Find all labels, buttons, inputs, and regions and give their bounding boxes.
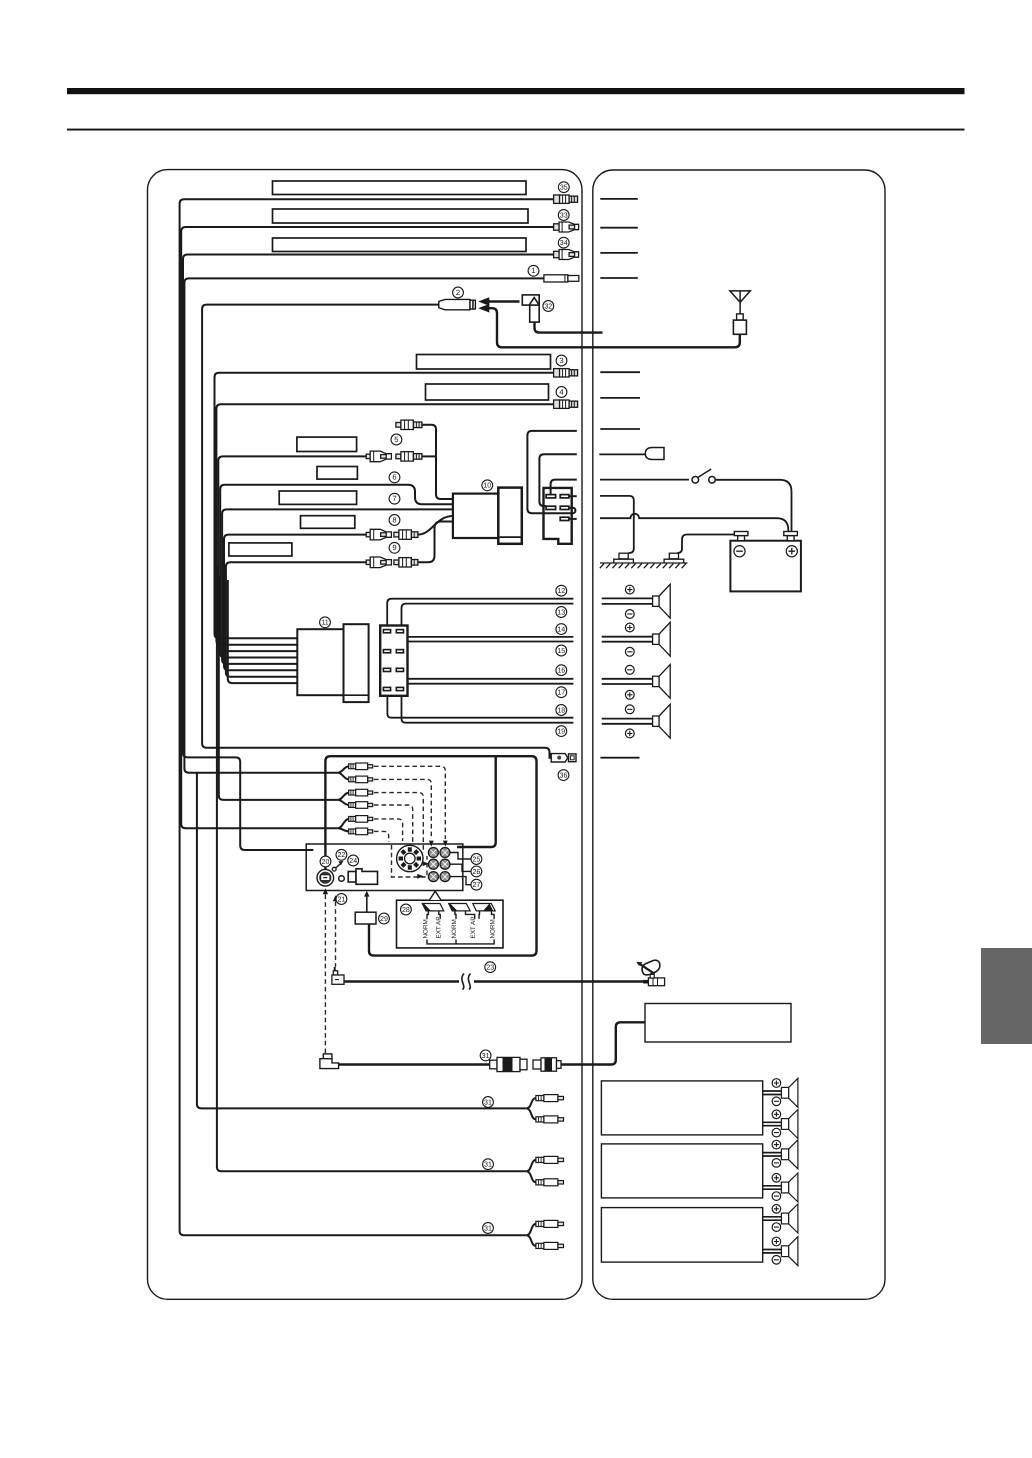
amplifier box 1 <box>601 1081 762 1135</box>
svg-text:34: 34 <box>560 239 568 247</box>
RCA plug L3 <box>349 816 373 823</box>
lead 19 <box>402 691 574 723</box>
amp2 speaker A <box>781 1140 798 1169</box>
RCA cord 31 pair 3 plugs <box>536 1220 564 1227</box>
amp3 speaker B <box>781 1237 798 1266</box>
amp1 speaker B minus <box>772 1128 781 1137</box>
svg-text:NORM: NORM <box>422 919 429 938</box>
lead 36 connector <box>551 754 576 762</box>
RCA plug L2 <box>349 789 373 796</box>
amp2 speaker B plus <box>772 1174 781 1183</box>
speaker FL plus <box>625 585 634 594</box>
connector 24 <box>348 869 377 885</box>
node 32 <box>543 301 554 312</box>
speaker FR minus <box>625 647 634 656</box>
label box 3 <box>417 355 551 370</box>
vehicle ISO socket <box>380 626 407 696</box>
amp2 speaker A plus <box>772 1140 781 1149</box>
wire 31b cord <box>217 566 526 1171</box>
amplifier box 2 <box>601 1144 762 1198</box>
spade female 5 <box>366 451 391 462</box>
wire 6 branch to fuse box <box>408 485 453 505</box>
label box 33 <box>273 209 529 223</box>
node 25 <box>471 854 482 865</box>
svg-text:22: 22 <box>337 851 345 859</box>
node 23 <box>485 962 496 973</box>
RCA jack grid <box>428 848 450 882</box>
amp2 speaker B minus <box>772 1192 781 1201</box>
wire 9 jumper to fuse box <box>418 522 453 563</box>
label box 7 <box>279 491 356 504</box>
node 8 <box>389 515 400 526</box>
svg-text:21: 21 <box>337 895 345 903</box>
cord break mark <box>460 973 474 990</box>
svg-text:3: 3 <box>559 356 563 365</box>
title bar <box>67 88 965 94</box>
dashed lead R2 <box>374 805 413 845</box>
label box 6 <box>317 467 357 480</box>
wire 31a cord <box>197 773 526 1109</box>
amp2 speaker B wires <box>763 1186 782 1189</box>
box 28 <box>397 900 504 948</box>
antenna extension cable <box>489 308 740 347</box>
selector symbol 3 <box>473 904 495 911</box>
speaker FL wires <box>602 598 653 604</box>
svg-text:33: 33 <box>560 211 568 219</box>
selector bottom bracket <box>427 940 494 944</box>
arrow 29 to unit <box>366 896 368 913</box>
rule line <box>67 129 965 131</box>
amp3 speaker A <box>781 1204 798 1233</box>
amp2 speaker B <box>781 1173 798 1202</box>
svg-text:16: 16 <box>557 667 565 675</box>
antenna extension cord 31 <box>339 1063 490 1065</box>
ISO plug 11 left <box>297 629 343 695</box>
arrow into jack col2 <box>443 841 448 847</box>
arrow at jack row2 <box>423 861 429 866</box>
node 3 <box>556 355 567 366</box>
page tab marker <box>981 948 1032 1044</box>
lead 18 <box>387 691 573 718</box>
amp1 speaker A <box>781 1078 798 1107</box>
node 29 <box>379 913 390 924</box>
amp1 speaker A wires <box>763 1091 782 1095</box>
power connector terminals <box>546 495 569 521</box>
node 28 <box>401 904 412 915</box>
lead 15 <box>402 642 574 650</box>
wire 3 to ISO pin <box>215 373 554 639</box>
node 7 <box>389 493 400 504</box>
RCA cord 31 pair 2 plugs <box>536 1156 564 1163</box>
amp3 speaker A plus <box>772 1205 781 1214</box>
amp1 speaker A minus <box>772 1097 781 1106</box>
RCA fork 1 <box>338 766 349 779</box>
battery negative wire <box>677 535 734 554</box>
svg-text:8: 8 <box>392 515 396 524</box>
car-side power connector body <box>544 488 572 544</box>
node 12 <box>556 585 567 596</box>
spade female 8 <box>366 529 391 540</box>
connector 34 <box>554 250 579 260</box>
switch lever <box>698 469 711 477</box>
node 9 <box>389 542 400 553</box>
node 27 <box>471 879 482 890</box>
box 29 <box>355 912 376 924</box>
node 16 <box>556 665 567 676</box>
node 2 <box>453 287 464 298</box>
selector legs 1 <box>427 911 440 919</box>
DIN cord branch into switch unit <box>457 756 496 847</box>
svg-text:27: 27 <box>472 881 480 889</box>
amp3 speaker B minus <box>772 1256 781 1265</box>
svg-text:14: 14 <box>557 626 565 634</box>
switch contacts <box>692 477 699 484</box>
node 18 <box>556 705 567 716</box>
microphone <box>636 960 664 985</box>
wire 1 / RCA cord 1 <box>184 278 544 772</box>
amp1 speaker B <box>781 1110 798 1139</box>
node 17 <box>556 687 567 698</box>
switch unit box <box>306 844 463 891</box>
svg-text:2: 2 <box>456 288 460 297</box>
ISO plug 11 right <box>344 624 369 702</box>
amp3 speaker A wires <box>763 1217 782 1220</box>
caret pointer <box>430 891 441 900</box>
dashed lead L3 <box>374 819 403 841</box>
svg-text:17: 17 <box>557 689 565 697</box>
arrow to jack 2 upper <box>488 300 519 303</box>
rotary selector wheel <box>397 845 423 871</box>
lead 17 <box>402 672 574 684</box>
ignition key <box>645 448 664 460</box>
jumper 5 lower tail <box>422 455 436 457</box>
svg-text:9: 9 <box>392 543 396 552</box>
svg-text:15: 15 <box>557 647 565 655</box>
wire 6 to ISO pin <box>220 485 408 658</box>
svg-text:13: 13 <box>557 608 565 616</box>
cord 23 continued <box>474 980 644 982</box>
battery <box>730 541 801 592</box>
accessory wire with jump <box>600 514 788 532</box>
amplifier box 3 <box>601 1208 762 1263</box>
svg-text:31: 31 <box>482 1052 490 1060</box>
dashed lead L2 <box>374 793 423 853</box>
fuse box 10 lip <box>500 536 522 538</box>
connector 4 <box>554 400 578 408</box>
speaker RL wires <box>602 679 653 684</box>
wire 8th ISO pin <box>228 580 297 683</box>
label box 34 <box>273 238 527 252</box>
ground lug 1 <box>614 553 634 563</box>
speaker FL minus <box>625 610 634 619</box>
vehicle panel <box>593 170 885 1299</box>
wire 35 / RCA cord 31c main <box>180 199 554 1235</box>
label box 8 <box>301 516 355 529</box>
battery plus symbol <box>786 546 797 557</box>
key lever 22 <box>332 861 343 871</box>
node 36 <box>558 770 569 781</box>
selector symbol 2 <box>449 904 471 911</box>
label box 4 <box>426 384 549 400</box>
cord 31 to changer <box>561 1022 645 1064</box>
dashed selector outline <box>392 845 428 877</box>
connector 3 <box>554 369 578 377</box>
node 31 <box>483 1159 494 1170</box>
node 19 <box>556 726 567 737</box>
node 10 <box>482 480 493 491</box>
svg-text:4: 4 <box>559 387 563 396</box>
wire 5 to ISO pin <box>218 456 366 651</box>
speaker RR <box>653 704 671 738</box>
speaker RL <box>653 665 671 699</box>
label box 9 <box>229 543 292 556</box>
ground lug 2 <box>664 553 684 563</box>
connector 33 <box>554 222 579 232</box>
svg-text:11: 11 <box>321 619 328 627</box>
RCA plug R1 <box>349 776 373 783</box>
amp1 speaker B plus <box>772 1110 781 1119</box>
svg-text:19: 19 <box>557 728 565 736</box>
lead 12 <box>387 599 573 626</box>
node 15 <box>556 645 567 656</box>
arrow into jack col1 <box>429 841 434 847</box>
wire loop C to car connector <box>551 480 577 496</box>
label box 35 <box>273 181 527 195</box>
node 4 <box>556 387 567 398</box>
dashed lead from jack 21 <box>335 902 337 967</box>
connector 35 <box>554 195 578 203</box>
extension cord 23 <box>344 980 459 982</box>
node 22 <box>336 849 347 860</box>
key stub wire <box>599 453 645 455</box>
node 14 <box>556 624 567 635</box>
fuse box 10 left <box>453 494 500 538</box>
dashed lead from DIN 20 <box>324 895 326 1054</box>
RCA fork 31 pair2 <box>526 1160 536 1182</box>
node 13 <box>556 607 567 618</box>
arrow up to jack 21 <box>333 895 338 901</box>
svg-text:32: 32 <box>544 302 552 310</box>
spade male 8 <box>394 530 418 539</box>
selector legs 3 <box>479 911 494 919</box>
lead 14 <box>387 637 573 650</box>
head unit panel <box>148 170 583 1300</box>
node 20 <box>320 856 331 867</box>
dashed lead R1 <box>374 779 431 839</box>
wire 2 antenna jack cord / lead 36 <box>202 305 552 758</box>
arrow to jack 2 lower <box>478 304 489 313</box>
svg-text:12: 12 <box>557 587 565 595</box>
speaker RL plus <box>625 690 634 699</box>
node 31 <box>483 1223 494 1234</box>
svg-text:NORM: NORM <box>451 919 458 938</box>
plug adapter 32 <box>522 295 539 322</box>
wire loop B to car connector <box>539 454 576 506</box>
bracket to node 27 <box>450 877 470 885</box>
svg-text:20: 20 <box>322 858 330 866</box>
amp3 speaker B wires <box>763 1250 782 1253</box>
ground hatching <box>600 563 688 568</box>
node 31 <box>480 1050 491 1061</box>
RCA plug R3 <box>349 828 373 835</box>
RCA fork 3 <box>338 819 349 832</box>
svg-text:6: 6 <box>392 473 396 482</box>
wire 33 / RCA cord 3 <box>181 227 553 828</box>
wire loop A to car connector <box>527 431 576 513</box>
svg-text:31: 31 <box>484 1224 492 1232</box>
spade male 5 lower <box>396 452 422 461</box>
amp2 speaker A wires <box>763 1153 782 1156</box>
svg-text:EXT AP: EXT AP <box>435 917 442 939</box>
RCA cord 2 <box>219 576 338 800</box>
ISO plug 11 lip <box>345 694 369 696</box>
svg-text:29: 29 <box>380 915 388 923</box>
amp3 speaker B plus <box>772 1237 781 1246</box>
spade female 9 <box>366 557 391 568</box>
svg-text:31: 31 <box>484 1098 492 1106</box>
amp3 speaker A minus <box>772 1223 781 1232</box>
ground wire 1 <box>600 496 634 553</box>
wire 8 jumper to fuse box <box>418 516 453 535</box>
battery minus symbol <box>734 546 745 557</box>
svg-text:NORM: NORM <box>489 919 496 938</box>
connector 1 barrel <box>544 275 579 282</box>
plug 23 mini jack <box>332 967 344 984</box>
stub lines upper <box>600 199 638 278</box>
speaker FR plus <box>625 623 634 632</box>
arrow up to DIN 20 <box>323 888 328 894</box>
amp1 speaker B wires <box>763 1122 782 1125</box>
RCA plug R2 <box>349 802 373 809</box>
RCA fork 2 <box>338 793 349 805</box>
selector symbol 1 <box>422 904 443 911</box>
vehicle ISO terminals <box>383 630 403 691</box>
stub lines mid <box>600 372 640 429</box>
node 24 <box>348 855 359 866</box>
switch wire left <box>600 479 689 481</box>
label box 5 <box>297 437 357 451</box>
svg-text:7: 7 <box>392 494 396 503</box>
node 34 <box>558 237 569 248</box>
amp1 speaker A plus <box>772 1079 781 1088</box>
lead 13 <box>402 604 574 626</box>
pin jack 21 <box>339 876 345 882</box>
arrow at jack row3 <box>417 874 423 879</box>
speaker FL <box>653 584 671 618</box>
speaker FR wires <box>602 637 653 642</box>
svg-text:EXT AP: EXT AP <box>470 917 477 939</box>
inline antenna connectors 31 <box>490 1057 561 1071</box>
CD changer box <box>645 1004 791 1043</box>
wire 7 through fuse box <box>222 509 453 664</box>
fuse box 10 right <box>498 488 522 544</box>
car connector stub lower <box>569 518 577 520</box>
node 33 <box>558 210 569 221</box>
node 35 <box>558 182 569 193</box>
selector legs 2 <box>455 911 475 919</box>
RCA fork 31 pair1 <box>526 1098 536 1119</box>
spade male 5 upper <box>396 420 422 429</box>
antenna mast <box>730 291 750 334</box>
svg-text:23: 23 <box>486 964 494 972</box>
speaker RR wires <box>602 719 653 724</box>
node 26 <box>471 866 482 877</box>
svg-text:10: 10 <box>483 482 491 490</box>
RCA cord 31 pair 1 plugs <box>536 1095 564 1102</box>
speaker RL minus <box>625 665 634 674</box>
RCA fork 31 pair3 <box>526 1224 536 1246</box>
svg-text:31: 31 <box>484 1161 492 1169</box>
wire 4 to ISO pin <box>216 404 553 645</box>
antenna jack 2 <box>439 299 476 309</box>
node 31 <box>483 1097 494 1108</box>
node 21 <box>336 894 347 905</box>
wire 9 to ISO pin <box>226 562 366 676</box>
dashed lead L1 <box>374 766 445 839</box>
battery positive post <box>784 532 798 541</box>
svg-text:25: 25 <box>472 855 480 863</box>
svg-text:36: 36 <box>560 772 568 780</box>
speaker RR plus <box>625 729 634 738</box>
battery negative post <box>734 532 748 541</box>
switch wire to battery <box>715 480 791 532</box>
RCA plug L1 <box>349 763 373 770</box>
bracket to node 26 <box>450 864 470 871</box>
speaker RR minus <box>625 705 634 714</box>
spade male 9 <box>394 558 418 567</box>
lead 16 <box>387 672 573 679</box>
node 1 <box>528 265 539 276</box>
wire 34 / feed to DIN <box>183 255 554 851</box>
svg-text:28: 28 <box>402 906 410 914</box>
svg-text:18: 18 <box>557 706 565 714</box>
plug 32 tail <box>535 322 603 333</box>
speaker FR <box>653 622 671 656</box>
node 5 <box>391 434 402 445</box>
plug 31 right angle <box>320 1054 339 1069</box>
svg-text:35: 35 <box>560 184 568 192</box>
jumper 5 to fuse box <box>422 425 453 499</box>
amp2 speaker A minus <box>772 1159 781 1168</box>
stub line 36 <box>600 757 639 759</box>
bracket to node 25 <box>450 853 470 860</box>
svg-text:26: 26 <box>472 868 480 876</box>
node 6 <box>389 472 400 483</box>
svg-text:1: 1 <box>531 266 535 275</box>
dashed lead R3 <box>374 831 389 842</box>
DIN cord riser and loop to box 29 <box>325 756 536 955</box>
svg-text:5: 5 <box>394 435 398 444</box>
DIN connector 20 <box>317 869 334 886</box>
wire 8 to ISO pin <box>224 535 366 671</box>
node 11 <box>320 617 331 628</box>
car connector stub upper <box>569 495 577 497</box>
svg-text:24: 24 <box>349 857 357 865</box>
